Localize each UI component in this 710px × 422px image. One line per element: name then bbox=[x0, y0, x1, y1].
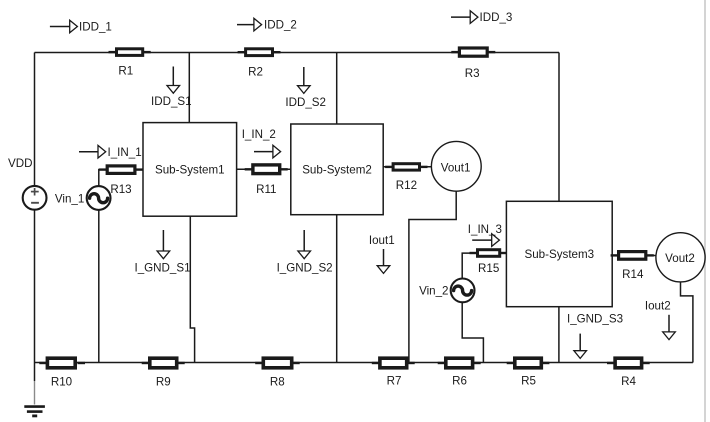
svg-text:R11: R11 bbox=[256, 183, 276, 196]
wire Sub-System1 to ground rail (with jog) bbox=[190, 216, 194, 362]
source VDD bbox=[23, 186, 47, 210]
svg-text:I_GND_S1: I_GND_S1 bbox=[134, 261, 190, 274]
svg-text:I_GND_S3: I_GND_S3 bbox=[567, 313, 623, 326]
svg-text:IDD_S2: IDD_S2 bbox=[285, 96, 326, 109]
svg-text:R8: R8 bbox=[270, 376, 285, 389]
svg-text:R6: R6 bbox=[452, 375, 467, 388]
wire Vout1 bottom to ground rail bbox=[409, 191, 456, 362]
current arrow I_GND_S2 bbox=[303, 230, 305, 251]
svg-text:Sub-System3: Sub-System3 bbox=[525, 248, 595, 261]
source Vin_2 bbox=[451, 279, 475, 303]
resistor R15 bbox=[470, 250, 507, 275]
current arrow IDD_3 bbox=[451, 16, 470, 18]
resistor R5 bbox=[507, 358, 550, 387]
wire R15 input: box3 left to Vin_2 top bbox=[462, 253, 506, 278]
resistor R13 bbox=[99, 166, 143, 196]
svg-text:R1: R1 bbox=[118, 65, 133, 78]
resistor R2 bbox=[238, 49, 281, 79]
resistor R4 bbox=[607, 358, 650, 388]
svg-text:R15: R15 bbox=[478, 262, 499, 275]
svg-text:Sub-System1: Sub-System1 bbox=[155, 164, 225, 177]
wire top rail bbox=[35, 52, 560, 54]
svg-text:R14: R14 bbox=[622, 268, 644, 281]
svg-text:IDD_1: IDD_1 bbox=[79, 21, 112, 34]
svg-text:R12: R12 bbox=[396, 179, 417, 192]
wire Vin_1 bottom to ground rail bbox=[98, 210, 100, 362]
probe Vout1 bbox=[431, 141, 481, 191]
current arrow IDD_S2 bbox=[303, 67, 305, 86]
svg-text:I_IN_2: I_IN_2 bbox=[242, 128, 276, 141]
source Vin_1 bbox=[87, 186, 111, 210]
svg-text:R5: R5 bbox=[521, 375, 536, 388]
svg-text:R10: R10 bbox=[51, 376, 72, 389]
resistor R11 bbox=[245, 165, 288, 196]
wire R12 box2 to Vout1 bbox=[383, 166, 431, 168]
current arrow IDD_1 bbox=[50, 26, 70, 28]
svg-text:I_IN_1: I_IN_1 bbox=[108, 146, 142, 159]
wire Sub-System2 to ground rail bbox=[336, 215, 338, 363]
resistor R8 bbox=[255, 358, 300, 388]
svg-text:IDD_2: IDD_2 bbox=[264, 19, 297, 32]
svg-text:IDD_S1: IDD_S1 bbox=[151, 95, 192, 108]
resistor R1 bbox=[109, 49, 151, 78]
Sub-System2 box U2 bbox=[291, 124, 383, 215]
wire ground stem bbox=[34, 381, 36, 405]
svg-text:Vout2: Vout2 bbox=[665, 252, 695, 265]
resistor R12 bbox=[385, 164, 427, 192]
svg-text:R9: R9 bbox=[156, 376, 171, 389]
svg-text:R2: R2 bbox=[248, 65, 263, 78]
wire Sub-System3 to ground rail bbox=[558, 307, 560, 363]
svg-text:Iout1: Iout1 bbox=[369, 234, 395, 247]
wire Vin_2 bottom to ground rail bbox=[462, 302, 483, 362]
svg-text:I_IN_3: I_IN_3 bbox=[468, 223, 502, 236]
wire R14 box3 to Vout2 bbox=[612, 255, 656, 257]
resistor R7 bbox=[372, 358, 415, 387]
ground bbox=[24, 405, 45, 408]
svg-text:R7: R7 bbox=[387, 375, 402, 388]
wire drop to Sub-System1 bbox=[188, 53, 190, 123]
frame border right edge bbox=[704, 0, 706, 422]
resistor R6 bbox=[438, 358, 481, 387]
svg-text:R3: R3 bbox=[465, 67, 480, 80]
svg-text:Iout2: Iout2 bbox=[645, 300, 671, 313]
wire R11 between box1 and box2 bbox=[237, 168, 291, 170]
svg-text:Vout1: Vout1 bbox=[441, 162, 471, 175]
resistor R9 bbox=[142, 358, 185, 388]
current arrow I_GND_S1 bbox=[162, 230, 164, 251]
svg-text:I_GND_S2: I_GND_S2 bbox=[277, 261, 333, 274]
svg-text:Vin_1: Vin_1 bbox=[55, 192, 84, 205]
Sub-System1 box U1 bbox=[143, 123, 237, 217]
current arrow I_IN_1 bbox=[79, 151, 98, 153]
probe Vout2 bbox=[656, 233, 705, 282]
resistor R3 bbox=[451, 48, 495, 80]
svg-text:R13: R13 bbox=[110, 183, 131, 196]
wire right rail to Sub-System3 bbox=[558, 53, 560, 202]
svg-text:R4: R4 bbox=[621, 375, 636, 388]
resistor R10 bbox=[39, 358, 85, 388]
current arrow IDD_2 bbox=[237, 24, 254, 26]
Sub-System3 box U3 bbox=[506, 201, 612, 306]
svg-text:Sub-System2: Sub-System2 bbox=[302, 164, 372, 177]
wire R13 input: box1 left to Vin_1 top bbox=[99, 170, 143, 187]
wire drop to Sub-System2 bbox=[336, 53, 338, 125]
wire left VDD rail bbox=[34, 53, 36, 382]
wire Vout2 bottom to ground rail bbox=[681, 282, 693, 363]
svg-text:Vin_2: Vin_2 bbox=[419, 284, 448, 297]
wire bottom rail bbox=[35, 362, 693, 364]
svg-text:IDD_3: IDD_3 bbox=[480, 11, 513, 24]
current arrow IDD_S1 bbox=[172, 67, 174, 86]
svg-text:VDD: VDD bbox=[8, 157, 32, 170]
resistor R14 bbox=[611, 252, 654, 281]
